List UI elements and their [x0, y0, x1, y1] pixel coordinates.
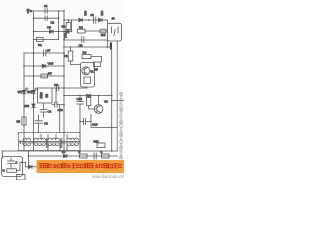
resistor R14 below bus: [101, 151, 110, 158]
transformer core hatch between windings: [46, 139, 48, 148]
svg-text:R: R: [3, 169, 5, 173]
wire rail y76: [24, 75, 64, 77]
transformer winding S2 top: [48, 138, 59, 140]
wire rail y95.5 right section: [64, 95, 112, 97]
svg-text:VD7: VD7: [18, 91, 23, 94]
svg-text:C5: C5: [79, 44, 83, 48]
svg-text:C4: C4: [91, 14, 95, 17]
wire vertical x117.5: [116, 41, 118, 151]
svg-text:www.dianzu5.com: www.dianzu5.com: [92, 174, 124, 179]
svg-text:C9: C9: [44, 122, 48, 126]
wire second rail: [34, 31, 65, 33]
svg-text:C3: C3: [48, 110, 52, 114]
svg-text:R2: R2: [62, 25, 66, 29]
amp unit box U2: [81, 63, 95, 88]
node 12V supply terminal: [27, 8, 32, 15]
junction dots y47: [70, 46, 109, 48]
svg-text:T: T: [19, 141, 21, 145]
wire left long vertical: [33, 11, 35, 151]
svg-text:VD8: VD8: [27, 91, 32, 94]
wire corner into left box column: [23, 53, 25, 151]
svg-text:C12: C12: [77, 97, 83, 101]
junction dots x64: [63, 10, 65, 105]
svg-text:58: 58: [45, 94, 49, 98]
diode VS1: [47, 26, 53, 34]
svg-text:R3: R3: [79, 25, 83, 29]
diode VD9 bottom left: [21, 162, 37, 168]
svg-text:V: V: [27, 11, 29, 15]
PSU rounded box bottom left: [2, 157, 23, 177]
LED VD8: [27, 88, 38, 94]
diode VD4: [99, 10, 104, 22]
capacitor C14 in PSU: [8, 158, 19, 168]
wire rail y127.5 to x117.5: [91, 122, 118, 128]
junction dots mid rails: [23, 52, 65, 77]
transformer winding S2 bottom: [48, 144, 59, 146]
resistor R7: [41, 72, 52, 78]
transformer winding S1a top: [23, 138, 31, 140]
wire vertical x111.7: [111, 50, 113, 151]
wire coil risers: [40, 135, 42, 139]
svg-text:VS: VS: [47, 26, 51, 30]
wire rail y88 with C8: [52, 87, 87, 89]
resistor R13 below bus: [79, 151, 88, 158]
svg-text:R15: R15: [101, 34, 106, 37]
connector box bottom: [17, 175, 26, 181]
capacitor C5: [79, 37, 84, 48]
svg-text:VD4: VD4: [101, 10, 104, 15]
wire rail y31.5 through box to edge: [85, 30, 108, 32]
svg-text:R7: R7: [48, 72, 52, 76]
svg-text:VD3: VD3: [84, 10, 87, 15]
resistor R8 vertical: [17, 117, 27, 125]
wire PSU riser: [2, 151, 4, 158]
svg-text:VD: VD: [62, 150, 66, 154]
transformer winding S1a bottom: [23, 144, 31, 146]
resistor R10 vertical: [86, 94, 96, 110]
svg-text:C: C: [15, 160, 18, 164]
svg-text:R: R: [101, 151, 103, 154]
wire stub from bus: [28, 151, 30, 167]
wire bottom bus: [2, 150, 118, 152]
svg-text:C1: C1: [44, 4, 48, 8]
wire into bar: [64, 46, 110, 48]
wire emitter drop: [90, 115, 92, 122]
svg-text:C2: C2: [51, 21, 55, 25]
svg-text:C8: C8: [54, 83, 58, 87]
capacitor C13: [80, 119, 98, 127]
capacitor C3 electrolytic on IC pin: [40, 103, 51, 117]
diode VD10: [62, 150, 67, 158]
wire vertical x57.5: [58, 11, 60, 40]
resistor R5: [94, 62, 101, 72]
wire mid rail y53: [24, 52, 64, 54]
capacitor C9 electrolytic lower: [35, 115, 48, 133]
svg-text:JD: JD: [112, 18, 115, 21]
wire vertical x56 and C10: [52, 88, 64, 133]
svg-text:R9: R9: [64, 54, 68, 58]
svg-text:R: R: [79, 151, 81, 154]
svg-text:V2: V2: [104, 100, 108, 104]
capacitor C2: [34, 16, 59, 25]
resistor R11 above bus: [94, 140, 106, 148]
wire V-box bottom pin: [86, 87, 88, 88]
resistor R4: [82, 51, 102, 63]
transformer T dashed box: [19, 133, 81, 151]
junction dots left column: [33, 10, 60, 40]
svg-text:V1: V1: [90, 70, 94, 74]
transformer core lines: [22, 141, 80, 143]
IC U1 5G058: [38, 88, 53, 103]
resistor R2 vertical: [62, 20, 108, 32]
capacitor C12 electrolytic: [77, 96, 84, 152]
capacitor C8: [54, 83, 59, 91]
wire rail y66: [24, 65, 64, 67]
transformer winding P bottom: [67, 144, 78, 146]
wire rail y156 below bus: [29, 155, 118, 157]
svg-text:R8: R8: [17, 120, 21, 124]
wire vertical x71.5: [71, 20, 73, 31]
resistor R3: [78, 25, 107, 37]
junction dots right: [63, 39, 112, 152]
resistor R1: [37, 38, 44, 48]
svg-text:5G0: 5G0: [40, 92, 44, 98]
wire y100.5 to right edge: [112, 100, 124, 102]
diode VD1: [64, 30, 72, 38]
junction top rail: [63, 19, 89, 32]
LED VD7: [18, 88, 29, 94]
transistor V1: [82, 67, 90, 75]
svg-text:C7: C7: [47, 49, 51, 53]
transistor V2: [94, 96, 108, 114]
svg-text:C10: C10: [58, 108, 64, 112]
diode VD5: [41, 62, 54, 68]
banner caption strip: [37, 160, 125, 173]
resistor R9 vertical below y47: [64, 47, 81, 65]
capacitor C15 below bus: [94, 153, 96, 159]
battery bar terminal: [110, 43, 112, 50]
svg-text:R4: R4: [83, 51, 87, 55]
capacitor C7: [44, 49, 51, 57]
relay box top right: [106, 20, 108, 23]
diode VD6 on left vertical: [24, 104, 35, 108]
resistor R12 in PSU: [3, 162, 20, 172]
transformer winding S1b bottom: [34, 144, 45, 146]
transformer winding P top: [67, 138, 78, 140]
capacitor C1: [44, 4, 48, 13]
transformer winding S1b top: [34, 138, 45, 140]
diode VD3: [79, 10, 88, 22]
wire third rail with R1: [34, 39, 59, 41]
svg-text:C13: C13: [92, 123, 98, 127]
wire top rail: [32, 10, 64, 12]
right margin vertical caption: [120, 92, 123, 159]
svg-text:VD6: VD6: [24, 104, 30, 108]
svg-text:R1: R1: [38, 43, 42, 47]
svg-text:VD5: VD5: [48, 62, 54, 66]
wire rail y39.5 with C5: [64, 39, 108, 41]
capacitor C4 hanging: [91, 14, 115, 23]
wire long vertical x64: [63, 11, 65, 152]
